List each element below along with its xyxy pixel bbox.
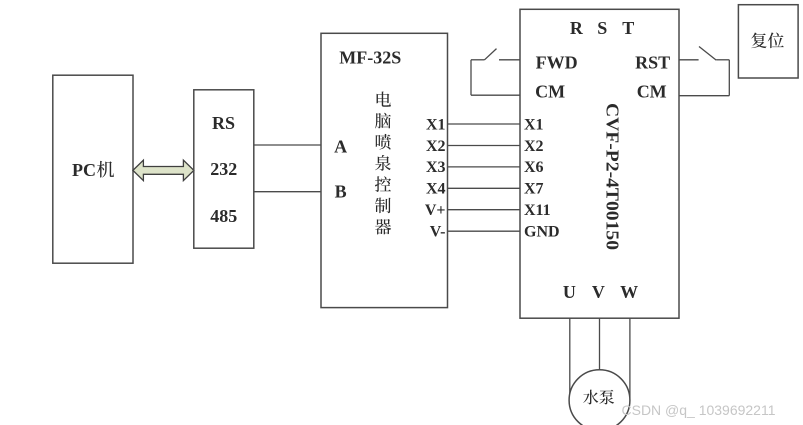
wire V <box>599 318 601 370</box>
wire X1 <box>448 123 521 125</box>
svg-text:B: B <box>335 182 347 202</box>
svg-text:X1: X1 <box>426 116 446 133</box>
svg-text:V-: V- <box>430 224 446 241</box>
svg-text:FWD: FWD <box>536 53 578 73</box>
svg-text:RST: RST <box>635 53 670 73</box>
svg-text:R: R <box>570 18 584 38</box>
svg-text:MF-32S: MF-32S <box>339 48 401 68</box>
svg-text:GND: GND <box>524 224 560 241</box>
svg-text:X2: X2 <box>426 138 446 155</box>
bidirectional arrow PC<->RS485 <box>133 160 194 180</box>
block PC机 (PC computer) <box>53 75 133 263</box>
wire X2 <box>448 145 521 147</box>
svg-text:PC: PC <box>72 160 96 180</box>
block 复位 (reset) <box>738 5 798 78</box>
MF-32S output pins X1 X2 X3 X4 V+ V- <box>425 116 446 240</box>
svg-text:X6: X6 <box>524 159 544 176</box>
svg-text:V: V <box>592 282 605 302</box>
svg-text:A: A <box>334 137 347 157</box>
wire V- <box>448 230 521 232</box>
svg-text:X3: X3 <box>426 159 446 176</box>
svg-text:X4: X4 <box>426 181 446 198</box>
svg-text:U: U <box>563 282 576 302</box>
wire B <box>254 191 321 193</box>
converter RS232/485 <box>194 90 254 248</box>
inverter input pins X1 X2 X6 X7 X11 GND <box>524 116 560 240</box>
vertical label 电脑喷泉控制器 <box>375 91 391 234</box>
inverter U1 CVF-P2-4T00150 <box>520 9 679 318</box>
motor M1 水泵 (water pump) <box>569 370 630 425</box>
svg-text:CSDN @q_ 1039692211: CSDN @q_ 1039692211 <box>622 403 776 418</box>
switch S1 (FWD-CM) <box>471 49 520 96</box>
wire A <box>254 144 321 146</box>
svg-text:X1: X1 <box>524 116 544 133</box>
svg-text:X7: X7 <box>524 181 544 198</box>
wire W <box>629 318 631 398</box>
svg-text:W: W <box>620 282 638 302</box>
wire X4 <box>448 187 521 189</box>
svg-text:S: S <box>597 18 607 38</box>
svg-text:232: 232 <box>210 159 237 179</box>
svg-text:T: T <box>622 18 634 38</box>
controller MF-32S <box>321 33 448 307</box>
svg-text:485: 485 <box>210 206 237 226</box>
wire X3 <box>448 166 521 168</box>
svg-text:CVF-P2-4T00150: CVF-P2-4T00150 <box>602 103 622 250</box>
svg-text:X2: X2 <box>524 138 544 155</box>
svg-text:X11: X11 <box>524 202 551 219</box>
wire V+ <box>448 209 521 211</box>
svg-text:CM: CM <box>637 82 667 102</box>
wire U <box>569 318 571 399</box>
svg-text:V+: V+ <box>425 202 446 219</box>
svg-text:CM: CM <box>535 82 565 102</box>
svg-text:RS: RS <box>212 113 235 133</box>
switch S2 (RST-CM, reset) <box>679 47 729 96</box>
